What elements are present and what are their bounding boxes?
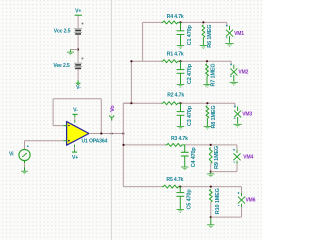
svg-text:VM4: VM4 [243,155,253,161]
svg-text:Vo: Vo [110,105,116,112]
svg-text:Vi: Vi [9,152,14,158]
svg-text:VM3: VM3 [242,112,252,118]
svg-text:R1 4.7k: R1 4.7k [167,52,184,58]
svg-text:C2 470p: C2 470p [187,63,193,84]
svg-text:Vee 2.5: Vee 2.5 [53,63,70,69]
svg-text:C5 470p: C5 470p [187,189,193,210]
svg-text:C1 470p: C1 470p [187,24,193,45]
svg-text:U1 OPA364: U1 OPA364 [82,138,108,144]
svg-text:C4 470p: C4 470p [191,147,197,168]
svg-text:R8 1MEG: R8 1MEG [211,105,217,128]
svg-text:R5 4.7k: R5 4.7k [166,177,183,183]
svg-text:Vcc 2.5: Vcc 2.5 [54,29,71,35]
svg-text:VM6: VM6 [246,198,256,204]
svg-text:VM2: VM2 [238,70,248,76]
svg-text:R3 4.7k: R3 4.7k [171,136,188,142]
svg-text:R10 1MEG: R10 1MEG [215,188,221,214]
svg-text:R9 1MEG: R9 1MEG [214,146,220,169]
svg-text:R2 4.7k: R2 4.7k [167,93,184,99]
svg-text:VM1: VM1 [234,31,244,37]
svg-text:V-: V- [73,107,78,113]
svg-text:R7 1MEG: R7 1MEG [210,63,216,86]
svg-text:V-: V- [76,85,81,91]
svg-text:V+: V+ [75,8,81,14]
svg-text:R6 1MEG: R6 1MEG [207,25,213,48]
svg-text:V+: V+ [72,155,78,161]
svg-text:C3 470p: C3 470p [187,105,193,126]
svg-text:R4 4.7k: R4 4.7k [167,14,184,20]
